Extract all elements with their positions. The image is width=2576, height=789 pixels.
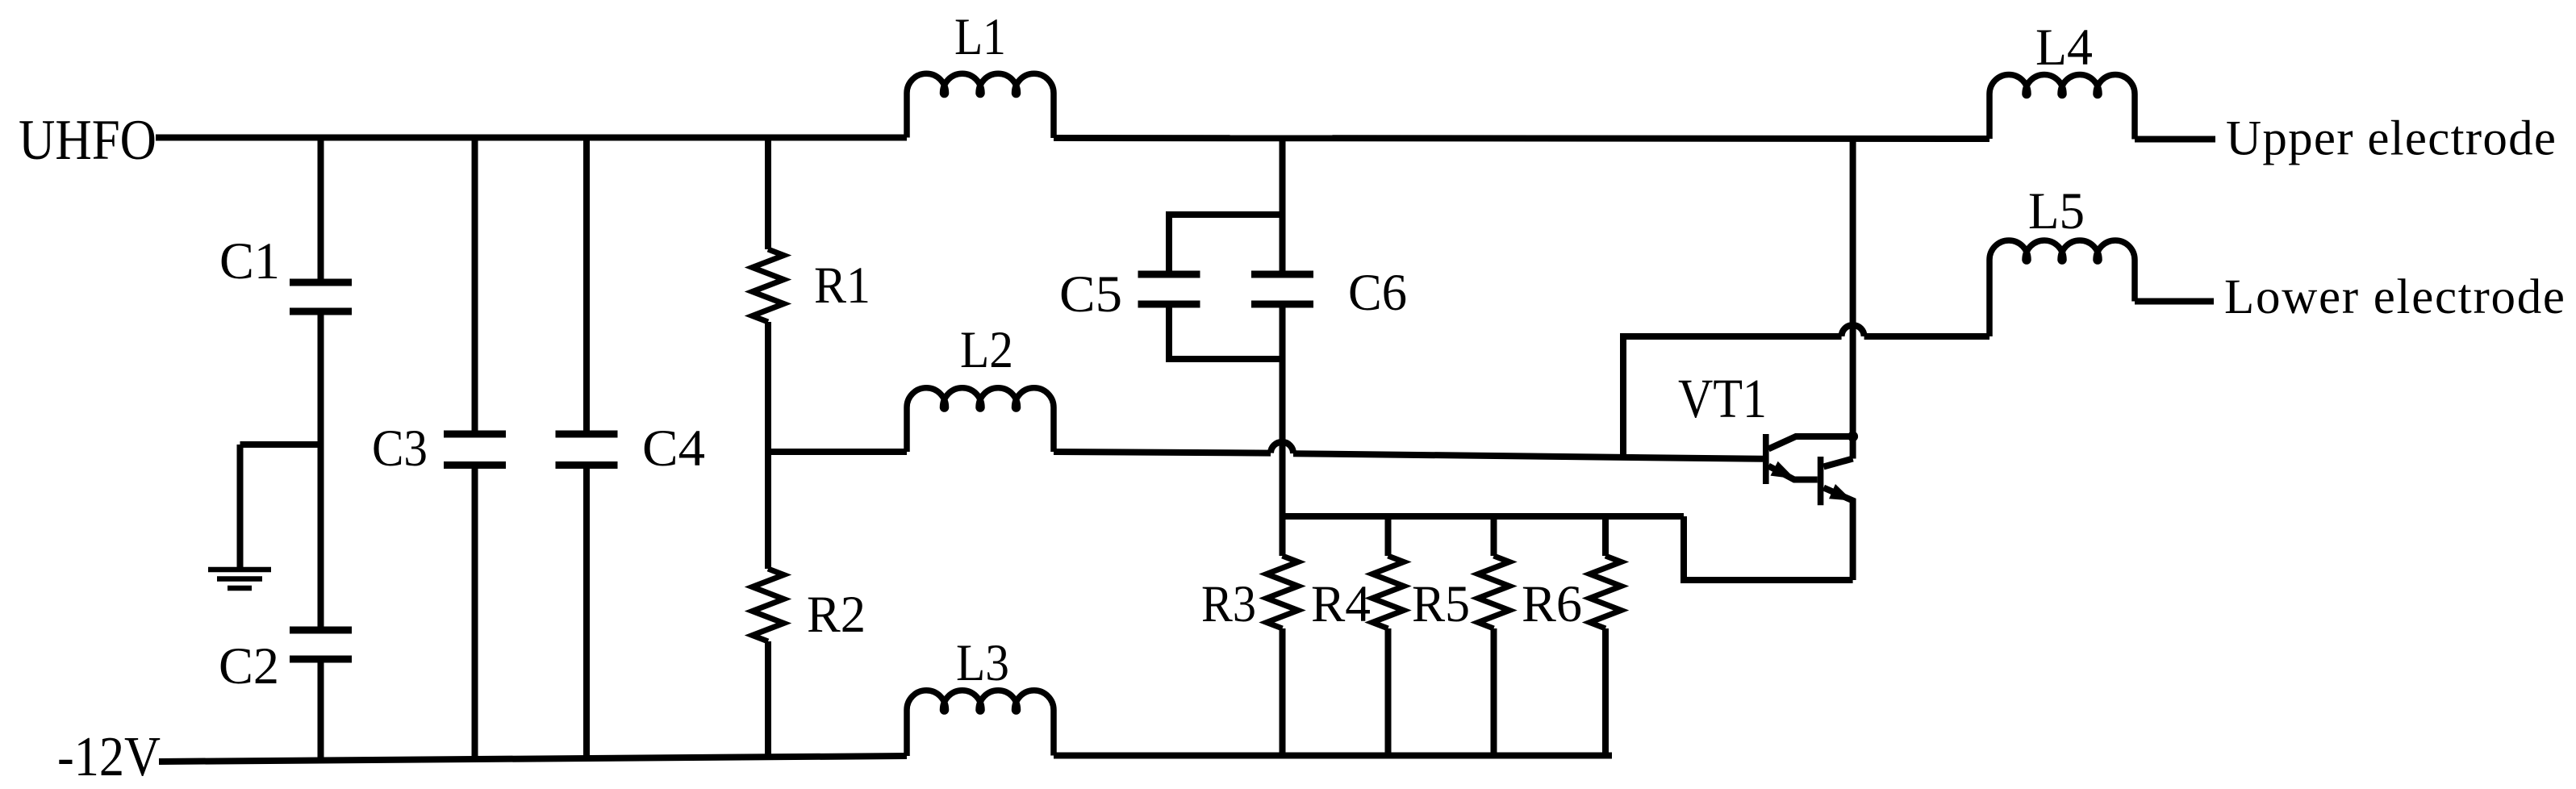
svg-text:L1: L1 [954, 8, 1006, 66]
transistor VT1b base bar [1818, 457, 1824, 505]
transistor VT1a base bar [1763, 434, 1769, 484]
svg-text:L5: L5 [2028, 182, 2085, 240]
wire: R6 top stub [1602, 516, 1609, 556]
svg-text:VT1: VT1 [1678, 368, 1767, 429]
svg-text:L3: L3 [956, 634, 1009, 692]
svg-text:Lower electrode: Lower electrode [2224, 270, 2565, 324]
wire: mid rail hop to VT1 base [1293, 453, 1763, 459]
transistor VT1a emitter [1768, 466, 1818, 480]
svg-text:C1: C1 [219, 232, 280, 290]
capacitor C5 [1138, 274, 1200, 304]
capacitor C3 [444, 434, 506, 465]
wire: R6 bottom stub [1602, 628, 1609, 756]
inductor L5 [1989, 240, 2135, 336]
wire: C4 branch top [583, 138, 590, 435]
wire: bottom rail L3 to R6 [1054, 753, 1612, 759]
wire hop over collector vertical [1842, 325, 1864, 336]
svg-text:R2: R2 [807, 586, 866, 644]
wire: emitter return path [1684, 516, 1853, 580]
resistor R4 [1372, 556, 1404, 628]
wire: C1 top stub [318, 138, 324, 283]
capacitor C6 [1251, 274, 1313, 304]
wire: ground stem [237, 445, 244, 570]
capacitor C2 [290, 630, 352, 659]
transistor VT1b emitter arrow [1829, 484, 1852, 501]
wire: R4 bottom stub [1385, 628, 1392, 756]
inductor L1 [907, 73, 1054, 138]
transistor VT1b collector [1823, 459, 1852, 467]
transistor VT1a collector [1768, 436, 1853, 449]
wire: mid rail L2 to hop [1054, 452, 1271, 453]
wire: C2 bottom stub [318, 659, 324, 761]
inductor L2 [907, 388, 1054, 452]
wire: ground branch [240, 441, 321, 448]
wire: R5 bottom stub [1491, 628, 1497, 756]
wire: R1 bottom stub [765, 322, 771, 452]
junction dot collector node [1847, 432, 1858, 442]
resistor R5 [1478, 556, 1509, 628]
svg-text:R6: R6 [1522, 575, 1582, 633]
svg-text:C6: C6 [1348, 264, 1407, 322]
inductor L3 [907, 691, 1054, 756]
svg-text:R4: R4 [1311, 575, 1371, 633]
svg-text:C2: C2 [219, 637, 279, 695]
wire: UHFO output top rail [156, 135, 907, 141]
wire: R5 top stub [1491, 516, 1497, 556]
wire: R3 bottom stub [1280, 628, 1286, 756]
wire: collector vertical from top rail [1850, 139, 1856, 459]
wire: C4 branch bottom [583, 465, 590, 759]
wire: mid rail R1R2 to L2 [768, 449, 907, 455]
wire: R2 bottom stub [765, 641, 771, 757]
wire: R3-R6 top bus [1283, 513, 1685, 520]
wire: C5 top link [1169, 215, 1283, 274]
svg-text:R1: R1 [814, 257, 870, 315]
capacitor C1 [290, 282, 352, 311]
transistor VT1a emitter arrow [1771, 461, 1796, 479]
wire: C6 branch top [1280, 138, 1286, 275]
inductor L4 [1989, 75, 2135, 140]
ground symbol [208, 570, 271, 588]
resistor R6 [1590, 556, 1622, 628]
wire: top rail L1 to L4 junction [1054, 138, 1989, 139]
resistor R2 [753, 569, 784, 641]
wire: R2 top stub [765, 452, 771, 569]
wire: C5 bottom link [1169, 304, 1283, 359]
resistor R1 [753, 249, 784, 322]
wire: hop to L5 [1864, 333, 1989, 340]
wire: -12V bottom rail left [159, 756, 907, 762]
wire: R1 top stub [765, 138, 771, 250]
svg-text:Upper electrode: Upper electrode [2226, 112, 2556, 166]
wire: VT1 feedback left vertical and top [1623, 336, 1842, 457]
capacitor C4 [556, 434, 618, 465]
svg-text:C5: C5 [1059, 265, 1122, 324]
wire: lower electrode lead [2135, 298, 2214, 305]
wire: C3 branch bottom [472, 465, 478, 760]
svg-text:-12V: -12V [57, 726, 161, 788]
svg-text:C4: C4 [642, 420, 705, 478]
svg-text:L4: L4 [2035, 19, 2093, 77]
svg-text:R5: R5 [1412, 575, 1470, 633]
wire: upper electrode lead [2135, 136, 2215, 143]
svg-text:L2: L2 [960, 321, 1013, 379]
wire: C1-C2 link [318, 311, 324, 630]
wire: R4 top stub [1385, 516, 1392, 556]
svg-text:UHFO: UHFO [19, 109, 157, 172]
svg-text:C3: C3 [372, 420, 428, 478]
svg-text:R3: R3 [1201, 575, 1256, 633]
wire hop over C6 branch [1271, 442, 1293, 453]
resistor R3 [1267, 556, 1298, 628]
wire: C6 to R3 [1280, 304, 1286, 556]
transistor VT1b emitter [1823, 488, 1852, 581]
wire: C3 branch top [472, 138, 478, 435]
